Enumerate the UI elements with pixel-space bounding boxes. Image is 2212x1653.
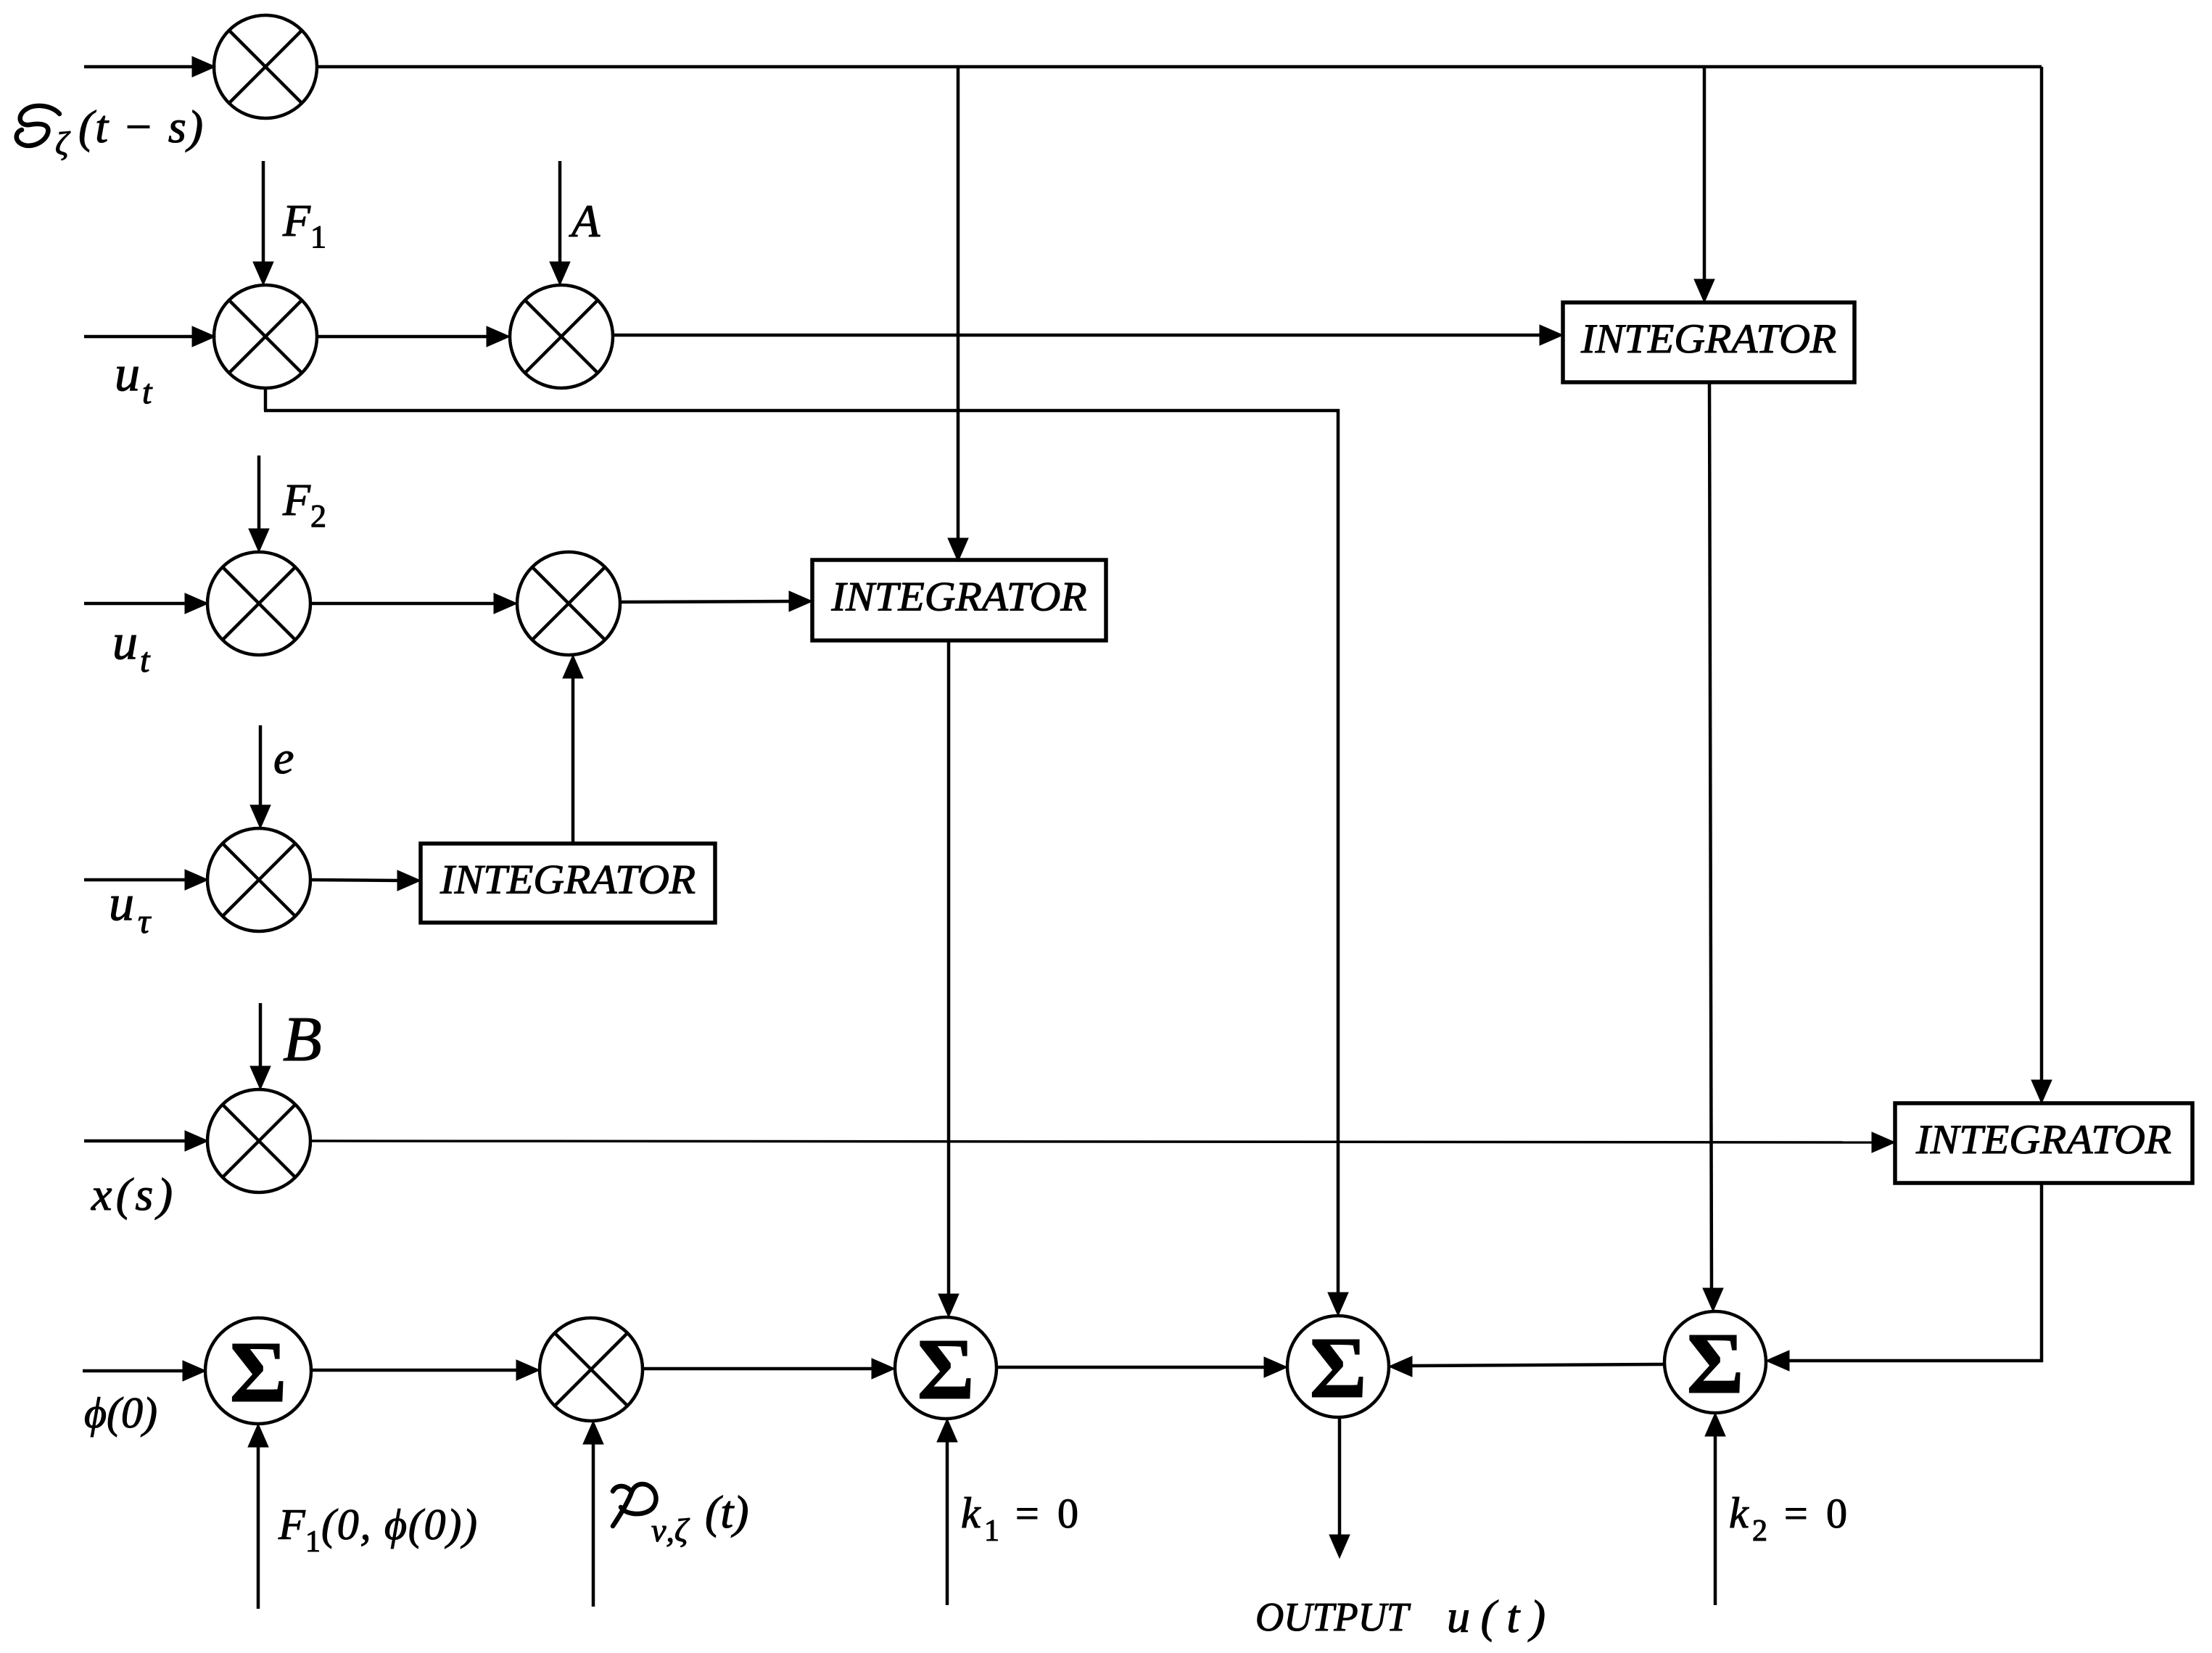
integrator I3 [421,844,715,923]
multiplier M8 [540,1318,643,1421]
svg-text:1: 1 [310,219,326,255]
integrator I2 [812,560,1106,640]
svg-text:t: t [142,373,153,411]
wire: M6 to INTEGRATOR I3 [310,870,421,891]
svg-text:F: F [278,1501,306,1549]
summer S4 [1664,1311,1766,1413]
wire: F2 arrow into M4 [249,455,269,552]
svg-text:e: e [273,732,294,783]
multiplier M7 [207,1089,310,1192]
wire: input arrow into M7 [84,1131,208,1151]
svg-text:Σ: Σ [917,1321,974,1418]
summer S1 [205,1318,311,1424]
svg-text:INTEGRATOR: INTEGRATOR [1580,316,1836,362]
label phi(0) [84,1389,157,1437]
svg-text:x(s): x(s) [91,1168,173,1220]
svg-text:k: k [961,1489,981,1537]
svg-text:1: 1 [984,1514,999,1548]
svg-text:A: A [569,195,601,247]
svg-text:1: 1 [305,1525,321,1559]
wire: e arrow into M6 [250,725,271,828]
wire: input arrow into M2 [84,326,215,347]
wire: S3 output down (OUTPUT) [1329,1417,1350,1558]
svg-text:(t): (t) [705,1486,748,1538]
wire: S4 to S3 [1389,1356,1664,1377]
svg-text:t: t [140,641,151,680]
svg-text:OUTPUT: OUTPUT [1255,1595,1411,1640]
label k2 = 0 [1729,1489,1847,1548]
wire: phi(0) input arrow into S1 [83,1361,206,1381]
wire: script-P arrow up into M8 [583,1421,603,1607]
wire: M7 long line to INTEGRATOR I4 [310,1132,1895,1153]
label e [273,732,294,783]
svg-text:F: F [282,197,311,246]
svg-text:(0, ϕ(0)): (0, ϕ(0)) [321,1501,477,1549]
svg-text:u: u [112,614,138,670]
label F1(0, phi(0)) [278,1501,477,1559]
svg-text:ν,ζ: ν,ζ [651,1512,690,1549]
svg-text:INTEGRATOR: INTEGRATOR [1915,1117,2171,1163]
wire: vertical drop to INTEGRATOR I2 [948,67,968,561]
summer S3 [1287,1316,1389,1417]
label x(s) [91,1168,173,1220]
label A [569,195,601,247]
svg-text:0: 0 [1057,1490,1078,1537]
wire: k1 arrow up into S2 [937,1419,957,1605]
label S_zeta(t-s) [17,101,203,162]
wire: M5 to INTEGRATOR I2 [620,591,812,611]
label script-P_{nu,zeta}(t) [613,1484,748,1549]
wire: k2 arrow up into S4 [1705,1413,1725,1605]
integrator I4 [1895,1103,2192,1183]
multiplier M6 [207,828,310,931]
svg-text:ζ: ζ [55,125,71,162]
label u_t (row2) [115,346,153,411]
multiplier M1 (top, S_zeta input) [214,15,317,118]
wire: input arrow into M6 [84,870,208,890]
wire: I4 output down and left into summer S4 [1766,1183,2043,1371]
label B [283,1005,322,1075]
wire: I2 output down to summer S2 [938,640,959,1317]
wire: input arrow into M4 [84,593,208,614]
wire: I3 output up into M5 [563,655,583,844]
svg-text:k: k [1729,1489,1749,1537]
wire: S2 to S3 [996,1357,1287,1377]
wire: M4 to M5 [310,593,517,614]
svg-text:2: 2 [310,498,326,534]
multiplier M3 (A) [510,285,613,388]
svg-text:Σ: Σ [1309,1319,1366,1417]
svg-text:Σ: Σ [229,1324,286,1421]
label OUTPUT u(t) [1255,1591,1545,1642]
svg-text:ϕ(0): ϕ(0) [84,1389,157,1437]
wire: input arrow into M1 [84,57,215,77]
wire: F1 arrow into M2 [253,161,273,285]
svg-text:B: B [283,1005,322,1075]
wire: far right vertical drop to INTEGRATOR I4 [2031,67,2052,1103]
svg-text:=: = [1015,1490,1039,1537]
svg-text:(t − s): (t − s) [78,101,203,152]
wire: M2 bottom feed to summer S3 [264,387,1348,1316]
wire: M3 to INTEGRATOR I1 [613,325,1563,345]
wire: M1 output top bus [317,65,2042,69]
multiplier M2 [214,285,317,388]
wire: B arrow into M7 [250,1003,271,1089]
label F1 [282,197,326,255]
svg-text:INTEGRATOR: INTEGRATOR [830,574,1086,620]
label F2 [282,476,326,534]
wire: A arrow into M3 [550,161,570,285]
summer S2 [895,1317,996,1419]
wire: I1 output down to summer S4 [1703,382,1723,1311]
multiplier M5 [517,552,620,655]
wire: S1 to M8 [311,1360,540,1380]
wire: M2 to M3 [317,326,510,347]
svg-text:τ: τ [138,902,152,941]
svg-text:2: 2 [1752,1514,1767,1548]
integrator I1 [1563,302,1854,382]
svg-text:=: = [1784,1490,1808,1537]
svg-text:INTEGRATOR: INTEGRATOR [439,857,696,903]
svg-text:0: 0 [1826,1490,1847,1537]
wire: vertical drop to INTEGRATOR I1 [1694,67,1714,302]
multiplier M4 [207,552,310,655]
wire: F1(0,phi(0)) arrow up into S1 [248,1424,268,1609]
label u_t (row3) [112,614,151,680]
svg-text:u: u [115,346,140,402]
svg-text:u: u [109,875,134,931]
label u_tau [109,875,152,941]
svg-text:u(t): u(t) [1447,1591,1545,1642]
svg-text:Σ: Σ [1686,1315,1743,1412]
label k1 = 0 [961,1489,1078,1548]
svg-text:F: F [282,476,311,525]
wire: M8 to S2 [643,1359,895,1379]
